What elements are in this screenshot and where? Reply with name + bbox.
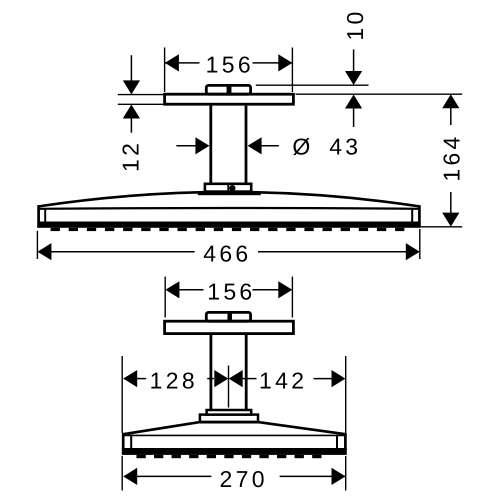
top view: pipe left wall <box>209 106 212 185</box>
svg-text:164: 164 <box>439 133 465 181</box>
dim 12: plate-top left extension <box>118 94 163 96</box>
dim 156 bottom: right extension line <box>291 277 293 318</box>
dim 12: up arrowhead <box>123 105 140 119</box>
dim 156 top: dimension line left <box>165 62 200 64</box>
dim 270: left extension line <box>121 456 123 491</box>
dim 142: dimension line left <box>243 378 257 380</box>
top view: pipe right wall <box>245 106 248 185</box>
dim 10: up arrowhead <box>345 95 362 109</box>
top view: nozzle ticks <box>51 228 405 231</box>
top view: connector inner line <box>227 185 229 192</box>
bottom view: connector upper step <box>207 410 252 415</box>
dim diameter 43: left-pointing arrowhead <box>248 137 262 154</box>
bottom view: ceiling plate <box>165 321 294 333</box>
svg-text:466: 466 <box>203 240 251 266</box>
bottom view: head left edge <box>122 433 125 449</box>
dim diameter 43: right-pointing arrowhead <box>195 137 209 154</box>
top view: ceiling flange block <box>206 85 250 94</box>
dim 466: dimension line left <box>51 251 195 253</box>
svg-text:12: 12 <box>118 140 144 172</box>
dim 156 bottom: dimension line right <box>253 289 279 291</box>
top view: ceiling plate <box>165 94 294 104</box>
bottom view: pipe centre line <box>228 366 230 408</box>
bottom view: head right edge <box>344 433 347 449</box>
top view: head left edge <box>37 205 40 222</box>
dim 142: left arrowhead at centre <box>229 370 243 387</box>
dim 156 top: right arrowhead <box>278 54 292 71</box>
top view: head right edge <box>418 205 421 222</box>
dim 156 top: left arrowhead <box>165 54 179 71</box>
bottom view: head roof outline <box>123 422 345 434</box>
dim 466: left extension line <box>36 231 38 259</box>
dim 12: down arrowhead <box>123 80 140 94</box>
dim 156 bottom: left extension line <box>164 277 166 318</box>
svg-text:43: 43 <box>329 133 361 159</box>
svg-text:142: 142 <box>259 367 307 393</box>
bottom view: pipe right wall <box>245 335 248 410</box>
dim 128: dimension line right <box>207 378 214 380</box>
bottom view: connector lower step <box>200 415 258 422</box>
dim 156 bottom: dimension line left <box>179 289 204 291</box>
dim 128: left arrowhead <box>123 370 137 387</box>
dim 164: down arrowhead <box>442 213 459 227</box>
dim 466: right arrowhead <box>406 243 420 260</box>
bottom view: pipe left wall <box>209 335 212 410</box>
dim 466: right extension line <box>419 229 421 259</box>
dim 270: dimension line right <box>280 475 346 477</box>
dim 12: plate-bottom left extension <box>118 103 163 105</box>
top view: dome top curve <box>39 192 420 206</box>
dim 270: right arrowhead <box>332 468 346 485</box>
dim 466: left arrowhead <box>37 243 51 260</box>
dim 10: upper leader line <box>353 49 355 72</box>
dim 142: right extension line <box>345 356 347 433</box>
dim 10: down arrowhead <box>345 71 362 85</box>
svg-text:156: 156 <box>206 51 254 77</box>
top view: rim top line <box>40 207 419 210</box>
dim 128: dimension line left <box>137 378 146 380</box>
bottom view: spray face band <box>122 448 347 455</box>
dim 164: lower leader line <box>450 192 452 213</box>
dim 142: dimension line right <box>314 378 332 380</box>
svg-text:Ø: Ø <box>292 133 310 159</box>
dim 156 top: dimension line right <box>253 62 293 64</box>
dim 156 top: left extension line <box>164 48 166 93</box>
dim 10: plate-top extension line <box>296 93 463 95</box>
dim 128: left extension line <box>121 356 123 433</box>
dim 164: bottom extension line <box>421 226 462 228</box>
bottom view: rim inner right line <box>336 436 338 448</box>
svg-text:128: 128 <box>150 367 198 393</box>
svg-text:156: 156 <box>207 279 255 305</box>
dim 12: upper leader line <box>130 55 132 81</box>
top view: connector button <box>229 185 235 191</box>
dim 10: flange-top extension line <box>256 84 369 86</box>
bottom view: rim inner left line <box>130 436 132 448</box>
bottom view: ceiling flange block <box>206 312 250 321</box>
top view: flange divider <box>227 84 232 95</box>
dim 270: dimension line left <box>137 475 212 477</box>
dim 12: lower leader line <box>130 118 132 133</box>
dim 156 bottom: right arrowhead <box>278 281 292 298</box>
top view: spray face band <box>37 222 421 228</box>
dim 142: right arrowhead <box>332 370 346 387</box>
svg-text:270: 270 <box>220 466 268 492</box>
dim 270: left arrowhead <box>123 468 137 485</box>
bottom view: flange divider <box>227 311 232 322</box>
bottom view: rim top line <box>125 434 345 436</box>
dim diameter 43: right leader line <box>262 145 279 147</box>
bottom view: nozzle ticks <box>136 455 321 458</box>
top view: rim inner left line <box>44 209 46 223</box>
dim 128: right arrowhead at centre <box>214 370 228 387</box>
dim 156 top: right extension line <box>291 48 293 93</box>
dim 156 bottom: left arrowhead <box>165 281 179 298</box>
dim diameter 43: left leader line <box>176 145 196 147</box>
dim 10: lower leader line <box>353 108 355 127</box>
top view: connector base bar <box>198 191 261 195</box>
dim 270: right extension line <box>345 456 347 491</box>
svg-text:10: 10 <box>342 8 368 40</box>
dim 164: upper leader line <box>450 108 452 125</box>
top view: rim inner right line <box>411 209 413 223</box>
dim 466: dimension line right <box>258 251 406 253</box>
dim 164: up arrowhead <box>442 94 459 108</box>
top view: connector body <box>205 184 251 192</box>
